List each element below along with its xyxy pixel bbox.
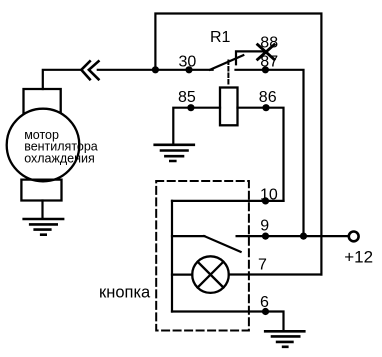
wire motor negative to ground — [41, 201, 43, 219]
svg-text:9: 9 — [260, 217, 269, 234]
motor M1 brush top rectangle — [24, 89, 61, 115]
wire top loop 30-net to lamp pin 7 — [155, 14, 321, 275]
crossed-out X mark on terminal 88 — [258, 45, 275, 60]
svg-text:R1: R1 — [210, 29, 231, 46]
node pin 85 junction — [187, 104, 194, 111]
motor M1 body circle — [7, 109, 80, 182]
wire coil pin 86 to button pin 10 — [238, 108, 284, 201]
node pin 30 junction — [185, 66, 192, 73]
svg-text:+12: +12 — [344, 247, 373, 266]
svg-text:7: 7 — [258, 256, 267, 273]
node pin 9 junction — [262, 233, 269, 240]
connector X1 chevron right half — [89, 61, 99, 79]
wire motor positive to connector — [43, 70, 81, 89]
svg-text:охлаждения: охлаждения — [24, 151, 95, 165]
relay coil K1 — [220, 88, 238, 126]
wire pin 10 into button — [172, 200, 284, 202]
ground symbol for pin 85 — [155, 145, 194, 161]
node junction motor net / top loop — [152, 66, 159, 73]
button dashed enclosure — [156, 181, 249, 331]
terminal +12 open circle — [349, 232, 359, 242]
svg-text:86: 86 — [259, 89, 277, 106]
connector X1 chevron left half — [81, 61, 90, 79]
node pin 86 junction — [262, 104, 269, 111]
relay switch arm (30 common) — [210, 55, 243, 70]
wire lamp to pin 7 — [229, 273, 322, 275]
wire pin 9 to +12 terminal — [237, 235, 349, 237]
wire connector to relay pin 30 — [98, 69, 213, 71]
node pin 87 junction — [262, 66, 269, 73]
svg-text:88: 88 — [260, 34, 278, 51]
svg-text:10: 10 — [260, 186, 278, 203]
lamp HL1 circle — [192, 256, 229, 293]
svg-text:85: 85 — [178, 89, 196, 106]
wire rail to pin 6 and ground — [172, 312, 284, 331]
motor M1 brush bottom rectangle — [21, 180, 61, 201]
wire left rail inside button — [171, 201, 173, 312]
button switch arm — [204, 236, 240, 252]
wire rail to lamp — [172, 274, 192, 276]
lamp HL1 cross — [198, 262, 224, 288]
wire coil pin 85 to ground — [173, 108, 220, 144]
svg-text:кнопка: кнопка — [99, 284, 151, 302]
ground symbol for pin 6 — [265, 331, 304, 347]
node pin 6 junction — [262, 308, 269, 315]
relay contact 88 line — [236, 51, 266, 64]
node junction 87 rail to +12 line — [300, 233, 307, 240]
svg-text:30: 30 — [179, 54, 197, 71]
wire button switch pivot — [172, 235, 204, 237]
ground symbol for motor — [24, 219, 63, 235]
relay actuator dashed link — [227, 61, 229, 87]
svg-text:6: 6 — [260, 294, 269, 311]
wire relay 87 to +12 rail — [236, 70, 304, 236]
node pin 10 junction — [262, 197, 269, 204]
svg-text:87: 87 — [260, 53, 278, 70]
